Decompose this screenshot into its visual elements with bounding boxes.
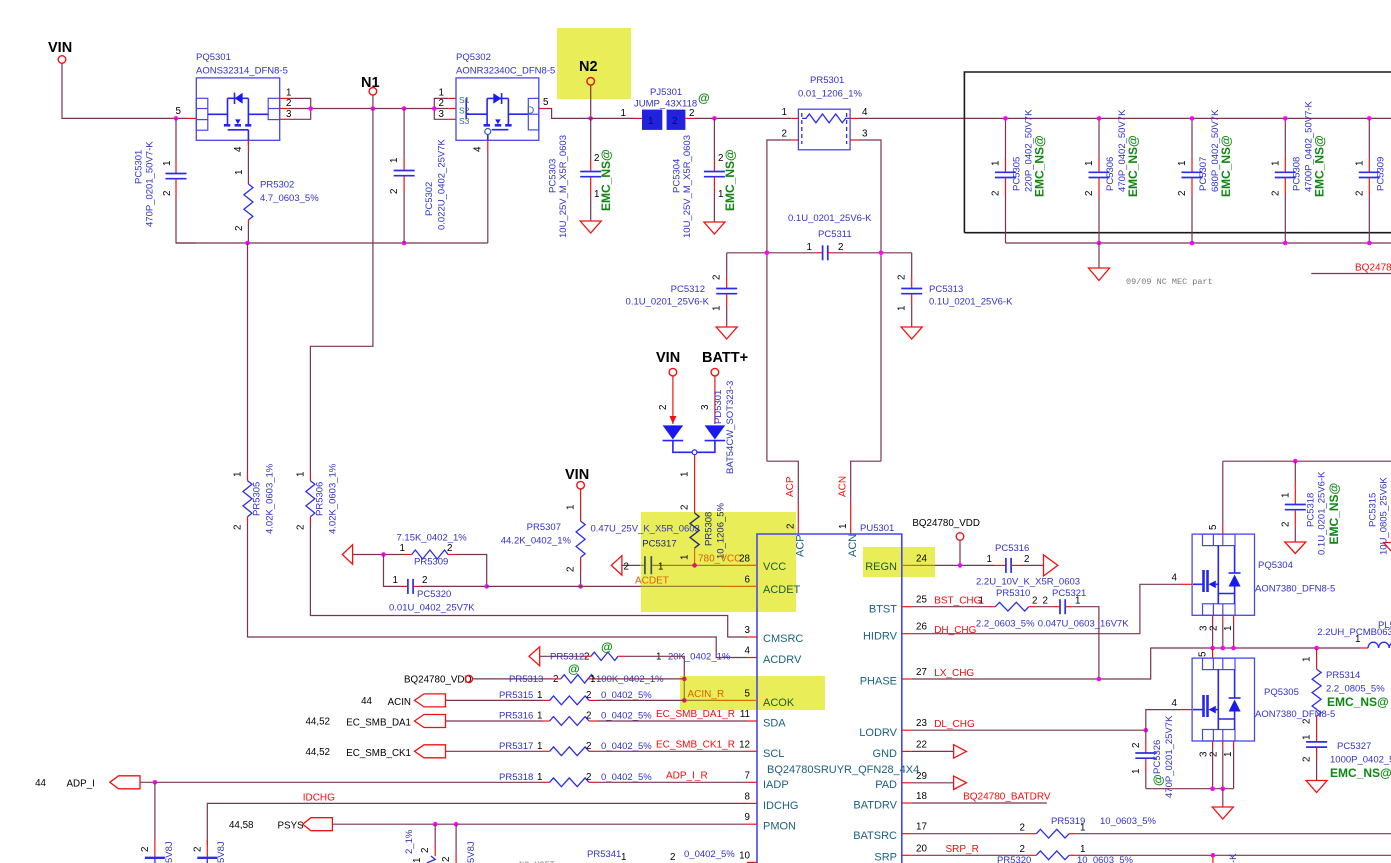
svg-text:@: @ <box>1151 774 1165 786</box>
svg-text:PR5302: PR5302 <box>260 180 294 191</box>
svg-text:0.1U_0201_25V6-K: 0.1U_0201_25V6-K <box>1317 471 1328 555</box>
svg-text:SCL: SCL <box>763 748 784 760</box>
svg-text:2: 2 <box>1270 191 1281 196</box>
svg-text:5: 5 <box>1198 651 1209 657</box>
svg-text:ACIN_R: ACIN_R <box>688 689 725 700</box>
svg-text:4: 4 <box>1172 573 1178 584</box>
capacitor PC5317 <box>611 539 694 576</box>
svg-text:10: 10 <box>739 850 750 861</box>
resistor PR5308 <box>680 496 727 565</box>
pin stubs right of PU5301 <box>902 564 912 566</box>
pin stubs left of PU5301 <box>747 564 757 566</box>
svg-text:2: 2 <box>1302 757 1313 762</box>
svg-text:0.01_1206_1%: 0.01_1206_1% <box>798 89 862 100</box>
svg-text:2: 2 <box>422 575 427 586</box>
resistor PR5306 <box>295 109 747 638</box>
svg-text:PR5318: PR5318 <box>499 772 533 783</box>
svg-text:18: 18 <box>916 791 927 802</box>
svg-text:12: 12 <box>739 739 750 750</box>
capacitor PC5318 <box>1280 461 1341 555</box>
svg-text:10_0603_5%: 10_0603_5% <box>1100 816 1157 827</box>
stub below PMON junction 1 <box>434 824 436 845</box>
resistor PR5309 <box>342 533 486 587</box>
svg-text:IADP: IADP <box>763 779 789 791</box>
svg-text:1: 1 <box>1131 769 1142 774</box>
svg-text:4: 4 <box>1172 698 1178 709</box>
svg-text:2.2_0603_5%: 2.2_0603_5% <box>976 619 1035 630</box>
svg-text:1: 1 <box>1302 657 1313 662</box>
wire PR5301 pin2 down <box>767 140 791 461</box>
svg-text:1: 1 <box>400 543 405 554</box>
svg-text:PR5315: PR5315 <box>499 690 533 701</box>
svg-text:PQ5302: PQ5302 <box>456 52 491 63</box>
svg-text:PC5302: PC5302 <box>424 182 435 216</box>
capacitor PC5320 <box>384 555 490 614</box>
transistor PQ5305 <box>1192 658 1335 741</box>
svg-text:CMSRC: CMSRC <box>763 633 803 645</box>
svg-text:11: 11 <box>740 709 750 720</box>
svg-text:1: 1 <box>1223 626 1234 631</box>
pin stubs 1,2,3 of PQ5302 <box>448 97 456 99</box>
wire VIN to PQ5301 pin5 <box>62 63 186 118</box>
svg-text:1: 1 <box>1223 752 1234 757</box>
resistor PR5315 row (ACIN) <box>361 690 684 708</box>
svg-text:2: 2 <box>897 275 908 280</box>
jumper PJ5301 <box>621 87 698 130</box>
svg-text:2: 2 <box>991 191 1002 196</box>
svg-text:PR5314: PR5314 <box>1326 670 1360 681</box>
svg-text:PC5306: PC5306 <box>1105 157 1116 191</box>
ground partial right edge <box>1383 543 1391 552</box>
svg-text:AONR32340C_DFN8-5: AONR32340C_DFN8-5 <box>456 66 555 77</box>
power symbol below IDCHG corner <box>192 840 227 863</box>
svg-text:1: 1 <box>621 108 626 119</box>
svg-text:2: 2 <box>439 98 444 109</box>
svg-text:VIN: VIN <box>48 40 72 56</box>
wire ACIN_R to ACOK pin 5 <box>684 699 716 701</box>
svg-text:2: 2 <box>586 772 591 783</box>
svg-text:20K_0402_1%: 20K_0402_1% <box>668 652 731 663</box>
svg-text:PR5316: PR5316 <box>499 711 533 722</box>
svg-text:3: 3 <box>700 404 711 410</box>
wire ACN vertical <box>851 461 881 503</box>
svg-text:4: 4 <box>862 107 868 118</box>
svg-text:0_0402_5%: 0_0402_5% <box>601 690 652 701</box>
wire REGN net <box>912 564 935 566</box>
capacitor PC5311 <box>727 213 912 260</box>
capacitor PC5306 <box>1084 109 1140 245</box>
svg-text:1: 1 <box>286 88 291 99</box>
svg-text:DL_CHG: DL_CHG <box>934 719 975 730</box>
svg-text:BQ24780: BQ24780 <box>1355 263 1391 274</box>
svg-text:PR5308: PR5308 <box>704 512 715 546</box>
wire VCC net to pin 28 <box>695 564 726 566</box>
svg-text:PD5301: PD5301 <box>713 390 724 424</box>
svg-text:EMC_NS@: EMC_NS@ <box>1327 695 1389 709</box>
svg-text:2_1%: 2_1% <box>404 829 415 854</box>
svg-text:7: 7 <box>745 770 750 781</box>
svg-text:2: 2 <box>389 189 400 194</box>
svg-text:PQ5305: PQ5305 <box>1264 687 1299 698</box>
svg-text:1: 1 <box>234 170 245 175</box>
pins 3,2,1 stubs PQ5304 (bottom) <box>1212 615 1214 622</box>
svg-text:2: 2 <box>1020 844 1025 855</box>
resistor PR5307 <box>501 489 585 589</box>
resistor PR5316 row (EC_SMB_DA1) <box>305 709 747 729</box>
svg-text:2: 2 <box>1177 191 1188 196</box>
svg-text:1: 1 <box>782 107 787 118</box>
ground below cap-bank bus <box>1098 243 1100 268</box>
svg-text:2: 2 <box>586 741 591 752</box>
svg-text:10_1206_5%: 10_1206_5% <box>716 502 727 559</box>
svg-text:EMC_NS@: EMC_NS@ <box>1033 135 1047 197</box>
svg-text:2: 2 <box>420 848 431 853</box>
svg-text:0.022U_0402_25V7K: 0.022U_0402_25V7K <box>437 138 448 230</box>
svg-text:PMON: PMON <box>763 821 796 833</box>
svg-text:2: 2 <box>658 405 669 410</box>
svg-text:2: 2 <box>782 129 787 140</box>
op-amp U1 : charger IC PU5301 <box>757 523 919 863</box>
svg-text:EMC_NS@: EMC_NS@ <box>1126 135 1140 197</box>
wire PMON/PSYS <box>332 823 747 825</box>
resistor PR5302 <box>234 140 319 243</box>
svg-text:44,52: 44,52 <box>305 747 330 758</box>
svg-text:SDA: SDA <box>763 718 786 730</box>
wire PC5318 bus <box>1223 460 1391 462</box>
svg-text:2: 2 <box>594 153 599 164</box>
svg-text:20: 20 <box>916 843 927 854</box>
svg-text:PC5326: PC5326 <box>1152 740 1163 774</box>
svg-text:N2: N2 <box>579 59 598 75</box>
svg-text:BQ24780SRUYR_QFN28_4X4: BQ24780SRUYR_QFN28_4X4 <box>767 764 919 776</box>
svg-text:2.2_0805_5%: 2.2_0805_5% <box>1326 684 1385 695</box>
svg-text:PC5327: PC5327 <box>1337 741 1371 752</box>
svg-text:1: 1 <box>1270 161 1281 166</box>
wire PR5301 pin3 down <box>858 140 881 461</box>
svg-text:1: 1 <box>537 690 542 701</box>
svg-text:2: 2 <box>689 108 694 119</box>
svg-text:0_0402_5%: 0_0402_5% <box>684 849 735 860</box>
svg-text:1: 1 <box>712 306 723 311</box>
svg-text:ACDET: ACDET <box>635 576 669 587</box>
svg-text:1: 1 <box>838 524 849 529</box>
wire bracket pins 1,2,3 of PQ5302 <box>434 98 448 119</box>
svg-text:1: 1 <box>1280 493 1291 498</box>
svg-text:5V8J: 5V8J <box>466 841 477 863</box>
svg-text:4: 4 <box>473 146 484 152</box>
svg-text:2: 2 <box>192 847 203 852</box>
svg-text:SRP_R: SRP_R <box>946 844 979 855</box>
svg-text:1: 1 <box>389 158 400 163</box>
svg-text:1000P_0402_50V: 1000P_0402_50V <box>1330 755 1391 766</box>
svg-text:1: 1 <box>1354 161 1365 166</box>
pin stubs 1,2,3 of PQ5301 <box>280 97 291 99</box>
wire N2 to PJ5301 <box>583 117 634 119</box>
pin 5 stub PQ5302 <box>539 108 547 110</box>
resistor PR5312 <box>529 640 731 700</box>
svg-text:PC5318: PC5318 <box>1306 493 1317 527</box>
svg-text:PR5306: PR5306 <box>315 482 326 516</box>
svg-text:PC5307: PC5307 <box>1198 157 1209 191</box>
svg-text:BATT+: BATT+ <box>702 350 748 366</box>
svg-text:EC_SMB_CK1: EC_SMB_CK1 <box>346 748 411 759</box>
svg-text:PC5312: PC5312 <box>671 284 705 295</box>
svg-text:PC5309: PC5309 <box>1375 157 1386 191</box>
junction PC5301 top <box>174 116 179 121</box>
resistor PR5319 <box>912 816 1391 838</box>
pin 4 stub PQ5305 <box>1181 709 1193 711</box>
wire diode node down to PR5308 <box>694 455 696 496</box>
svg-text:PR5301: PR5301 <box>810 75 844 86</box>
svg-text:JUMP_43X118: JUMP_43X118 <box>634 99 697 110</box>
svg-text:2: 2 <box>1208 626 1219 631</box>
svg-text:0.01U_0402_25V7K: 0.01U_0402_25V7K <box>389 603 475 614</box>
svg-text:1: 1 <box>1177 161 1188 166</box>
svg-text:EC_SMB_CK1_R: EC_SMB_CK1_R <box>656 739 735 750</box>
PAD stub arrow <box>912 782 954 784</box>
svg-text:10U_25V_M_X5R_0603: 10U_25V_M_X5R_0603 <box>558 135 569 238</box>
capacitor PC5313 <box>897 253 1013 339</box>
svg-text:PR5305: PR5305 <box>252 482 263 516</box>
resistor PR5318 row (ADP_I) <box>499 770 747 786</box>
svg-text:ADP_I_R: ADP_I_R <box>666 770 708 781</box>
svg-text:BTST: BTST <box>869 604 897 616</box>
svg-text:PC5301: PC5301 <box>134 150 145 184</box>
resistor PR5314 <box>1302 648 1389 728</box>
wire PR5301 pin4 to cap bank <box>858 117 1391 119</box>
svg-text:2: 2 <box>286 98 291 109</box>
svg-text:ACOK: ACOK <box>763 697 795 709</box>
pin 4 label PQ5301 <box>247 140 249 146</box>
transistor PQ5304 <box>1192 534 1335 615</box>
svg-text:PR5320: PR5320 <box>997 855 1031 863</box>
svg-text:IDCHG: IDCHG <box>763 800 798 812</box>
svg-text:470P_0201_25V7K: 470P_0201_25V7K <box>1164 715 1175 798</box>
pin stub 5 of PQ5301 <box>186 117 196 119</box>
svg-text:1: 1 <box>718 189 723 200</box>
svg-text:1: 1 <box>594 189 599 200</box>
svg-text:1: 1 <box>537 741 542 752</box>
svg-text:0.1U_0201_25V6-K: 0.1U_0201_25V6-K <box>626 297 710 308</box>
svg-text:4: 4 <box>745 646 751 657</box>
svg-text:44: 44 <box>361 696 372 707</box>
capacitor PC5326 <box>1131 715 1175 798</box>
svg-text:ACDET: ACDET <box>763 584 801 596</box>
svg-text:5V8J: 5V8J <box>216 841 227 863</box>
svg-text:1: 1 <box>979 595 984 606</box>
svg-text:PC5321: PC5321 <box>1052 588 1086 599</box>
svg-text:780_VCC: 780_VCC <box>698 554 741 565</box>
capacitor PC5321 <box>1037 588 1130 679</box>
svg-text:1: 1 <box>412 858 423 863</box>
svg-text:PHASE: PHASE <box>860 676 897 688</box>
svg-text:ACN: ACN <box>847 534 859 557</box>
svg-text:2: 2 <box>586 690 591 701</box>
resistor PR5301 (current sense) <box>782 75 868 150</box>
capacitor PC5304 <box>672 118 738 238</box>
svg-text:1: 1 <box>1080 844 1085 855</box>
svg-text:@: @ <box>698 91 710 105</box>
svg-text:2: 2 <box>1208 752 1219 757</box>
svg-text:22: 22 <box>916 739 927 750</box>
capacitor PC5302 <box>389 109 448 244</box>
svg-text:HIDRV: HIDRV <box>863 631 898 643</box>
svg-text:EMC_NS@: EMC_NS@ <box>1327 483 1341 545</box>
svg-text:PAD: PAD <box>875 779 897 791</box>
svg-text:2: 2 <box>1354 191 1365 196</box>
capacitor PC5327 <box>1302 728 1391 793</box>
svg-text:1: 1 <box>439 88 444 99</box>
svg-text:2: 2 <box>447 543 452 554</box>
svg-text:PC5311: PC5311 <box>818 229 852 240</box>
GND stub arrow <box>912 750 954 752</box>
svg-text:PC5313: PC5313 <box>929 284 963 295</box>
svg-text:2: 2 <box>1084 191 1095 196</box>
wire ACDET net <box>487 585 641 587</box>
svg-text:BST_CHG: BST_CHG <box>934 596 981 607</box>
pin 5 stub PQ5304 (top) <box>1222 461 1224 524</box>
svg-text:2: 2 <box>718 153 723 164</box>
svg-text:S2: S2 <box>459 106 470 116</box>
ground below PQ5305 <box>1222 789 1224 807</box>
pins 3,2,1 stubs PQ5305 (bottom) <box>1212 741 1214 748</box>
svg-text:PC5317: PC5317 <box>642 539 676 550</box>
svg-text:8: 8 <box>745 791 751 802</box>
svg-text:2: 2 <box>672 116 678 127</box>
svg-text:1: 1 <box>590 674 595 685</box>
svg-text:44,58: 44,58 <box>229 820 254 831</box>
svg-text:D: D <box>527 106 534 117</box>
svg-text:10U_0805_25V6K: 10U_0805_25V6K <box>1379 477 1390 555</box>
wire LX_CHG / phase bus <box>912 648 1361 679</box>
svg-text:EMC_NS@: EMC_NS@ <box>723 149 737 211</box>
svg-text:2: 2 <box>680 505 691 510</box>
capacitor PC5312 <box>626 253 738 339</box>
svg-text:5: 5 <box>176 106 182 117</box>
highlight box VCC/ACDET <box>641 512 796 612</box>
svg-text:PC5304: PC5304 <box>672 159 683 193</box>
svg-text:EMC_NS@: EMC_NS@ <box>599 149 613 211</box>
svg-text:2: 2 <box>1302 719 1313 724</box>
inductor PL5301 <box>1314 620 1391 650</box>
EMC option box (black outline) <box>964 72 1391 233</box>
svg-text:PC5308: PC5308 <box>1291 157 1302 191</box>
svg-text:REGN: REGN <box>865 561 897 573</box>
svg-text:44,52: 44,52 <box>305 717 330 728</box>
svg-text:470P_0201_50V7-K: 470P_0201_50V7-K <box>145 141 156 227</box>
svg-text:0.1U_0201_25V6-K: 0.1U_0201_25V6-K <box>929 297 1013 308</box>
svg-text:ACP: ACP <box>795 534 807 557</box>
svg-text:2: 2 <box>1024 554 1029 565</box>
svg-text:29: 29 <box>916 771 927 782</box>
svg-text:4: 4 <box>233 146 244 152</box>
svg-text:1: 1 <box>656 652 661 663</box>
wire PJ5301 to PR5301 <box>694 117 791 119</box>
svg-text:LODRV: LODRV <box>859 727 897 739</box>
svg-text:PR5307: PR5307 <box>527 522 561 533</box>
svg-text:PC5305: PC5305 <box>1012 157 1023 191</box>
svg-text:PR5312: PR5312 <box>550 652 584 663</box>
svg-text:10U_25V_M_X5R_0603: 10U_25V_M_X5R_0603 <box>682 135 693 238</box>
svg-text:PQ5301: PQ5301 <box>196 52 231 63</box>
svg-text:10_0603_5%: 10_0603_5% <box>1077 855 1134 863</box>
svg-text:5V8J: 5V8J <box>164 841 175 863</box>
wire source rail PQ5305 <box>1146 788 1234 790</box>
svg-text:VCC: VCC <box>763 561 786 573</box>
svg-text:2: 2 <box>838 242 843 253</box>
svg-text:LX_CHG: LX_CHG <box>934 668 974 679</box>
svg-text:0_0402_5%: 0_0402_5% <box>601 772 652 783</box>
svg-text:AON7380_DFN8-5: AON7380_DFN8-5 <box>1255 584 1335 595</box>
svg-text:2: 2 <box>233 525 244 530</box>
svg-text:2: 2 <box>295 525 306 530</box>
svg-text:0.047U_0603_16V7K: 0.047U_0603_16V7K <box>1038 619 1130 630</box>
svg-text:2: 2 <box>234 226 245 231</box>
svg-text:@: @ <box>568 662 580 676</box>
svg-text:0.1U_0201_25V6-K: 0.1U_0201_25V6-K <box>788 213 872 224</box>
transistor PQ5301 <box>196 52 288 140</box>
wire DL_CHG <box>912 729 1146 731</box>
svg-text:S3: S3 <box>459 116 470 126</box>
wire ACP vertical <box>767 461 798 503</box>
pin 4 stub PQ5304 <box>1181 583 1193 585</box>
pin 4 stub PQ5302 <box>487 140 489 151</box>
svg-text:BAT54CW_SOT323-3: BAT54CW_SOT323-3 <box>725 381 736 474</box>
svg-text:BQ24780_VDD: BQ24780_VDD <box>404 675 472 686</box>
svg-text:2: 2 <box>566 567 577 572</box>
svg-text:1: 1 <box>537 711 542 722</box>
svg-text:PC5320: PC5320 <box>417 589 451 600</box>
svg-text:1: 1 <box>1302 735 1313 740</box>
svg-text:5: 5 <box>1208 524 1219 530</box>
svg-text:PR5341: PR5341 <box>587 849 621 860</box>
svg-text:PC5303: PC5303 <box>548 159 559 193</box>
svg-text:1: 1 <box>648 116 654 127</box>
svg-text:2: 2 <box>162 191 173 196</box>
svg-text:5: 5 <box>543 97 549 108</box>
svg-text:VIN: VIN <box>565 467 589 483</box>
svg-text:2: 2 <box>624 562 629 573</box>
svg-text:2: 2 <box>1043 595 1048 606</box>
wire bracket joining pins 1,2,3 <box>291 98 311 119</box>
svg-text:1: 1 <box>987 554 992 565</box>
wire bottom rail left <box>176 242 488 244</box>
svg-text:6: 6 <box>745 575 751 586</box>
svg-text:PR5313: PR5313 <box>509 674 543 685</box>
svg-text:BATDRV: BATDRV <box>853 800 897 812</box>
svg-text:4.02K_0603_1%: 4.02K_0603_1% <box>328 463 339 534</box>
power symbol below ADP_I junction <box>140 782 175 863</box>
svg-text:ACN: ACN <box>837 476 848 497</box>
capacitor PC5316 <box>976 543 1080 588</box>
svg-text:26: 26 <box>916 622 927 633</box>
transistor PQ5302 <box>456 52 555 140</box>
wire DL_CHG to PQ5305 gate <box>1146 710 1181 731</box>
resistor PR5313 <box>404 662 687 686</box>
svg-text:1: 1 <box>897 306 908 311</box>
svg-text:PQ5304: PQ5304 <box>1258 560 1293 571</box>
svg-text:PU5301: PU5301 <box>860 523 894 534</box>
svg-text:1: 1 <box>679 472 690 477</box>
svg-text:0_0402_5%: 0_0402_5% <box>601 711 652 722</box>
svg-text:@: @ <box>601 640 613 654</box>
svg-text:2: 2 <box>441 857 452 862</box>
resistor PR5317 row (EC_SMB_CK1) <box>305 739 747 759</box>
highlight box REGN <box>863 547 935 577</box>
svg-text:2: 2 <box>1280 522 1291 527</box>
svg-text:17: 17 <box>916 822 927 833</box>
svg-text:9: 9 <box>745 812 750 823</box>
